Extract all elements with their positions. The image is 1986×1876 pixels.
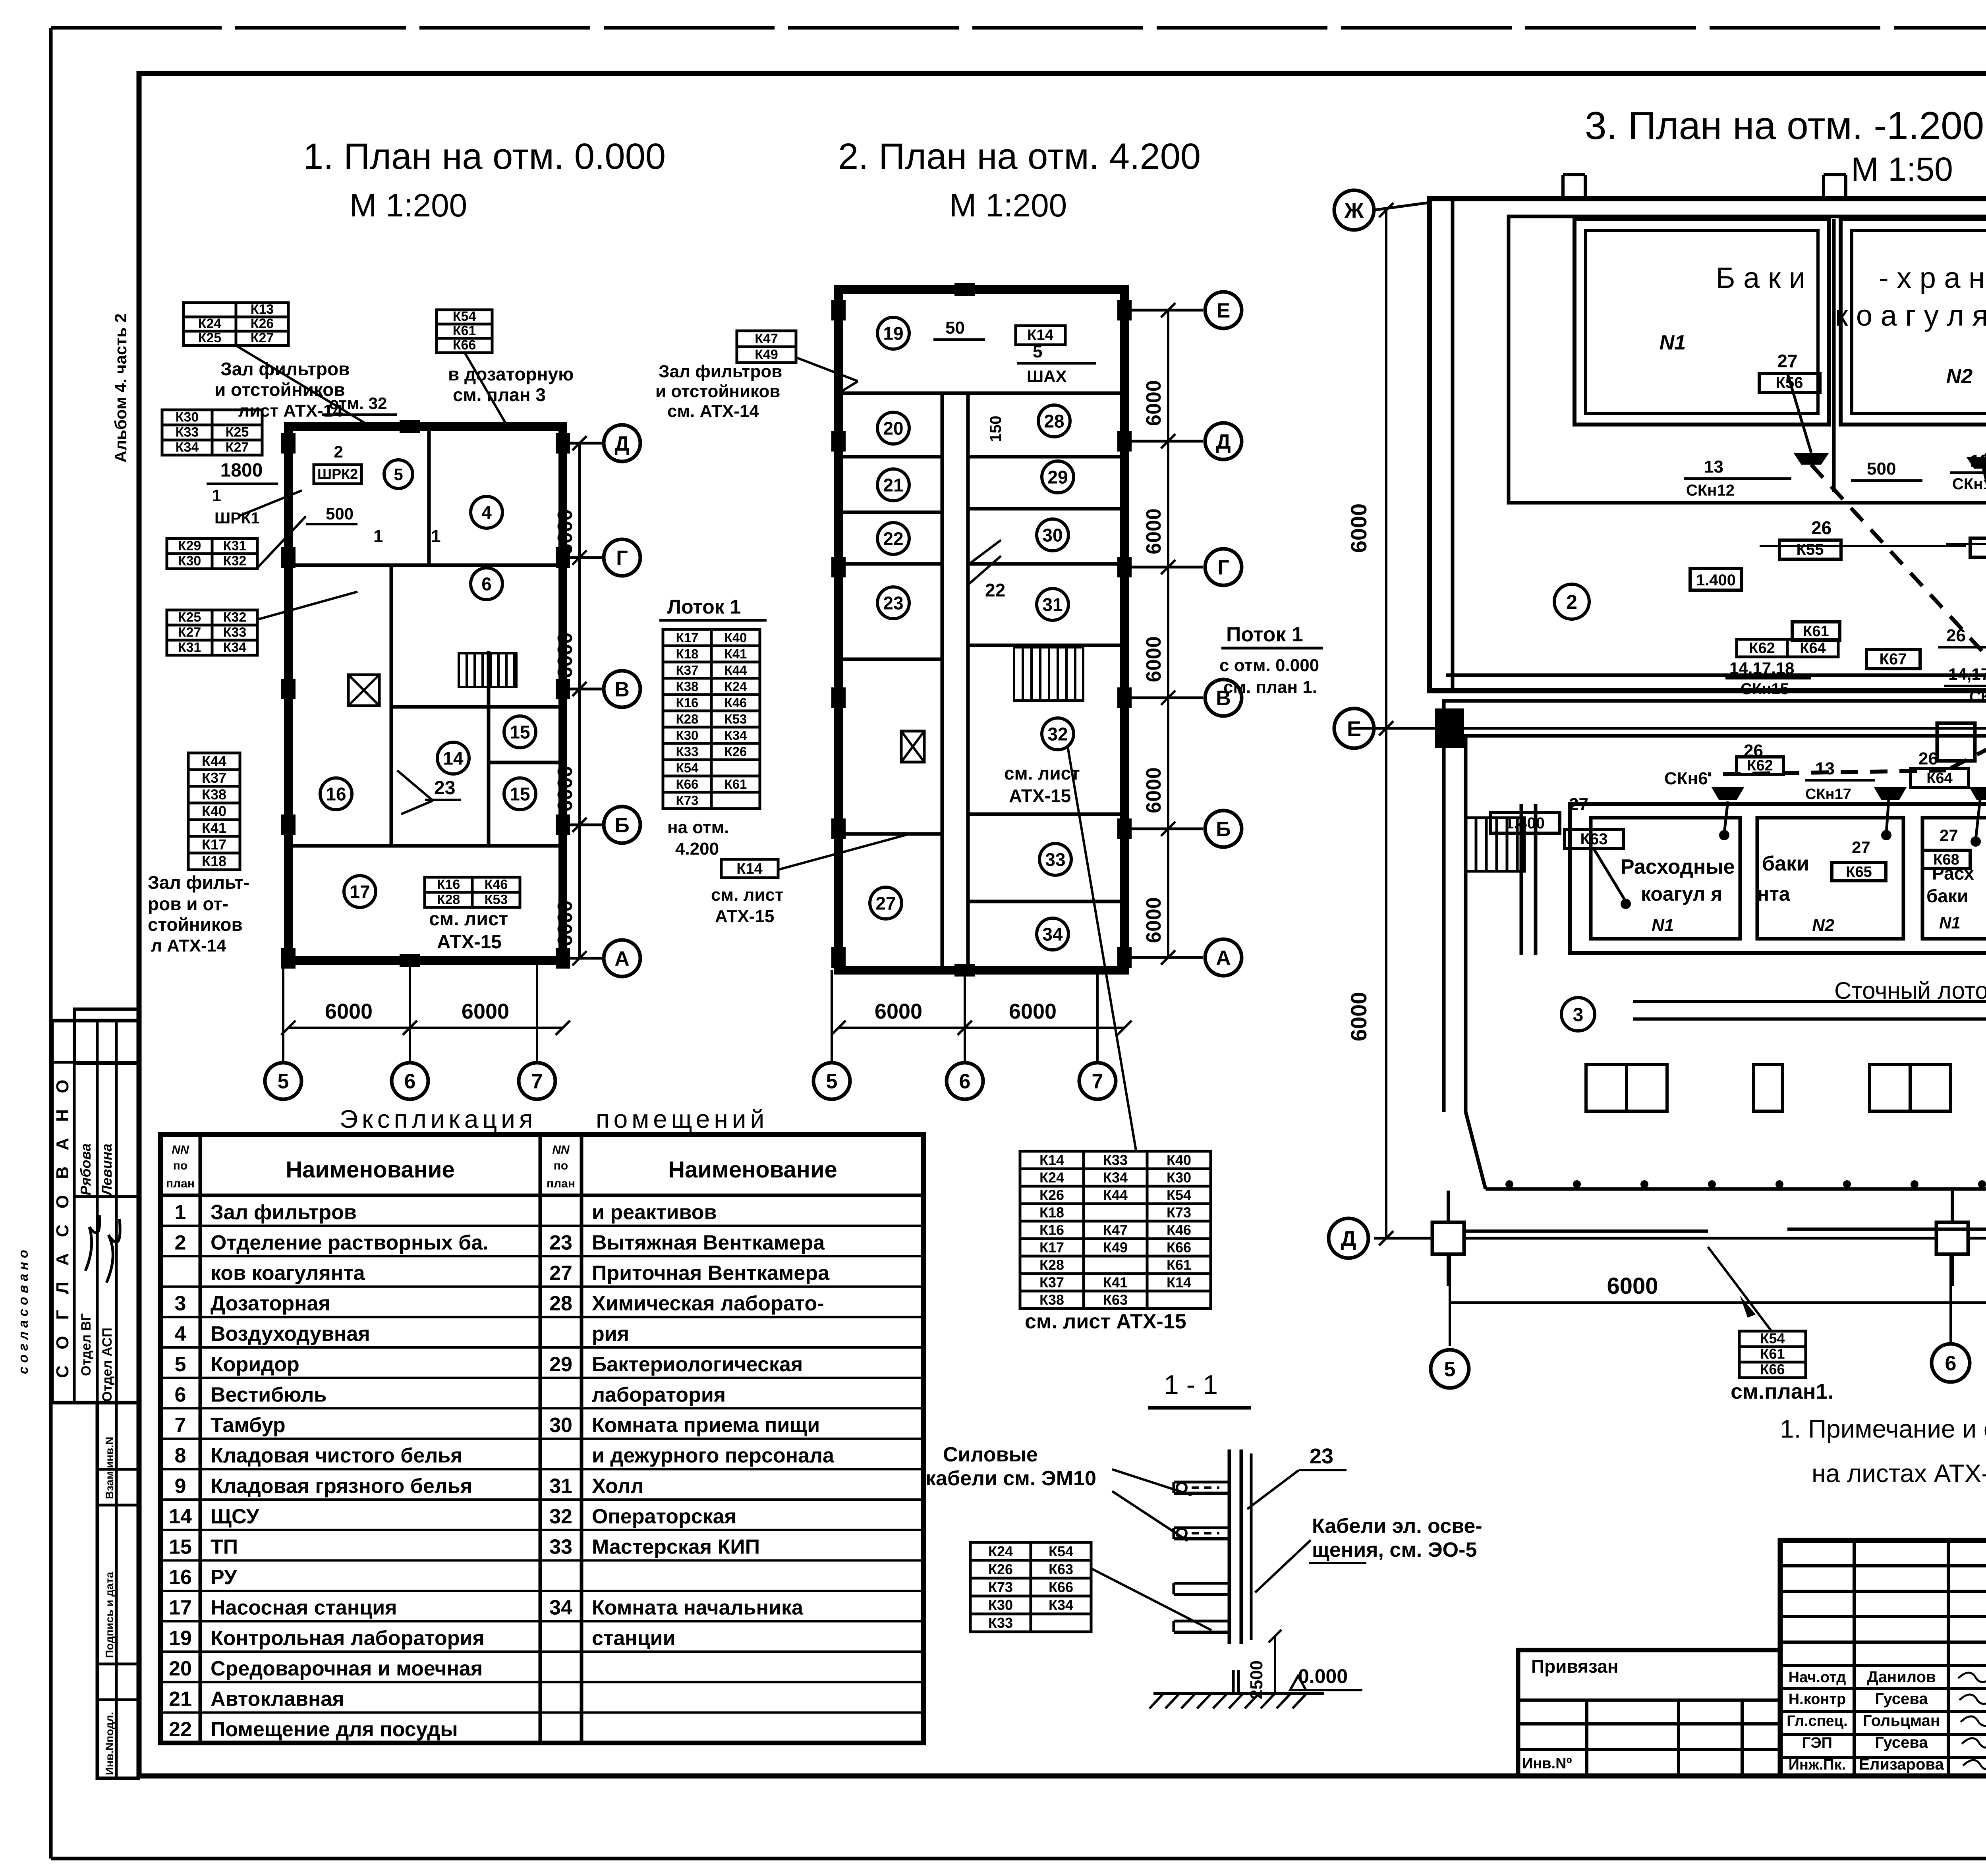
svg-text:Приточная Венткамера: Приточная Венткамера: [592, 1262, 830, 1285]
svg-text:Д: Д: [614, 432, 629, 455]
svg-text:150: 150: [987, 416, 1005, 442]
svg-text:6: 6: [481, 574, 492, 594]
svg-text:К44: К44: [202, 753, 226, 769]
svg-text:15: 15: [510, 722, 530, 743]
svg-text:Левина: Левина: [99, 1144, 115, 1197]
svg-text:СКн17: СКн17: [1805, 786, 1851, 803]
svg-text:1. Примечание и спецификацию: 1. Примечание и спецификацию см.: [1780, 1415, 1986, 1443]
svg-text:А: А: [614, 948, 630, 971]
svg-text:1: 1: [431, 527, 440, 546]
svg-text:К38: К38: [202, 786, 226, 803]
svg-text:станции: станции: [592, 1627, 676, 1650]
svg-text:К27: К27: [251, 330, 274, 345]
svg-text:К61: К61: [1803, 623, 1829, 640]
svg-text:Отдел АСП: Отдел АСП: [100, 1328, 115, 1402]
svg-text:2: 2: [334, 442, 343, 461]
svg-text:ШРК1: ШРК1: [214, 510, 260, 527]
svg-text:22: 22: [985, 580, 1005, 600]
svg-text:нта: нта: [1757, 883, 1791, 905]
svg-text:23: 23: [1310, 1444, 1333, 1468]
svg-text:К41: К41: [1103, 1274, 1128, 1290]
svg-text:6000: 6000: [462, 1000, 509, 1023]
svg-text:Отдел ВГ: Отдел ВГ: [79, 1313, 94, 1376]
svg-text:К49: К49: [755, 347, 778, 362]
svg-text:к о а г у л я н т а: к о а г у л я н т а: [1835, 299, 1986, 332]
svg-text:N1: N1: [1660, 331, 1686, 354]
svg-text:К44: К44: [724, 663, 747, 677]
svg-text:СКн18: СКн18: [1969, 688, 1986, 706]
svg-text:ШАХ: ШАХ: [1027, 367, 1067, 386]
svg-text:Н.контр: Н.контр: [1789, 1691, 1846, 1708]
svg-text:К54: К54: [453, 309, 476, 324]
svg-text:Зал фильт-: Зал фильт-: [148, 872, 249, 893]
svg-text:3: 3: [1573, 1004, 1584, 1025]
svg-text:14: 14: [169, 1505, 192, 1528]
svg-text:К18: К18: [676, 647, 699, 661]
svg-text:А: А: [1216, 947, 1231, 970]
svg-text:6000: 6000: [1142, 636, 1165, 682]
svg-text:Е: Е: [1217, 299, 1231, 322]
svg-text:рия: рия: [592, 1322, 629, 1345]
svg-text:Автоклавная: Автоклавная: [211, 1688, 344, 1711]
svg-text:31: 31: [1042, 594, 1063, 615]
svg-text:9: 9: [175, 1475, 186, 1498]
svg-text:К67: К67: [1880, 650, 1907, 668]
svg-text:33: 33: [549, 1535, 572, 1558]
svg-text:27: 27: [549, 1262, 572, 1285]
svg-text:К26: К26: [724, 744, 747, 759]
svg-text:Тамбур: Тамбур: [211, 1414, 286, 1437]
svg-text:30: 30: [1042, 525, 1063, 546]
svg-text:К37: К37: [676, 663, 699, 677]
svg-text:Б: Б: [1216, 818, 1231, 841]
svg-text:Зал фильтров: Зал фильтров: [659, 362, 782, 381]
svg-text:К61: К61: [453, 323, 476, 338]
svg-text:К66: К66: [453, 338, 476, 353]
svg-text:К40: К40: [202, 803, 226, 819]
svg-text:К14: К14: [1039, 1152, 1064, 1168]
svg-text:2. План на отм. 4.200: 2. План на отм. 4.200: [838, 136, 1201, 177]
svg-text:13: 13: [1704, 457, 1723, 477]
svg-text:28: 28: [549, 1292, 572, 1315]
svg-text:Воздуходувная: Воздуходувная: [211, 1322, 370, 1345]
svg-text:27: 27: [1777, 351, 1797, 371]
svg-text:К28: К28: [437, 892, 460, 907]
svg-text:20: 20: [883, 418, 903, 439]
svg-text:К38: К38: [676, 679, 699, 694]
svg-text:К46: К46: [724, 695, 747, 710]
svg-text:К30: К30: [178, 554, 201, 569]
svg-text:6000: 6000: [1607, 1273, 1658, 1299]
svg-text:К14: К14: [1027, 327, 1053, 344]
svg-text:4.200: 4.200: [675, 839, 719, 859]
svg-text:ШРК2: ШРК2: [317, 466, 358, 482]
svg-text:23: 23: [549, 1231, 572, 1254]
svg-text:щения, см. ЭО-5: щения, см. ЭО-5: [1312, 1538, 1477, 1561]
svg-text:см. лист АТХ-15: см. лист АТХ-15: [1025, 1310, 1186, 1333]
svg-text:см. лист: см. лист: [429, 909, 508, 930]
svg-text:Гольцман: Гольцман: [1863, 1712, 1940, 1729]
svg-text:с о г л а с о в а н о: с о г л а с о в а н о: [16, 1250, 31, 1374]
svg-text:3: 3: [175, 1292, 186, 1315]
svg-text:К65: К65: [1846, 864, 1872, 880]
svg-text:5: 5: [1033, 342, 1042, 361]
svg-text:М 1:200: М 1:200: [949, 187, 1067, 224]
svg-text:N2: N2: [1946, 365, 1973, 388]
svg-text:К38: К38: [1039, 1291, 1064, 1308]
svg-text:1. План на отм. 0.000: 1. План на отм. 0.000: [303, 136, 666, 177]
svg-text:Ж: Ж: [1344, 199, 1364, 222]
svg-text:6000: 6000: [1142, 767, 1165, 813]
svg-text:30: 30: [549, 1414, 572, 1437]
svg-text:Помещение для посуды: Помещение для посуды: [211, 1718, 458, 1741]
svg-text:К33: К33: [176, 425, 199, 440]
svg-text:Привязан: Привязан: [1531, 1656, 1619, 1677]
svg-text:К62: К62: [1747, 757, 1773, 774]
svg-text:19: 19: [169, 1627, 192, 1650]
svg-text:М 1:50: М 1:50: [1851, 151, 1953, 188]
svg-text:17: 17: [169, 1596, 192, 1619]
svg-text:лаборатория: лаборатория: [592, 1383, 726, 1406]
svg-text:К53: К53: [724, 712, 747, 726]
svg-text:К61: К61: [1760, 1345, 1785, 1362]
svg-text:К32: К32: [223, 554, 247, 569]
svg-text:14: 14: [443, 748, 464, 769]
svg-text:Гусева: Гусева: [1875, 1690, 1928, 1708]
svg-text:баки: баки: [1762, 852, 1809, 875]
svg-text:Взам.инв.N: Взам.инв.N: [103, 1437, 116, 1499]
svg-text:7: 7: [175, 1414, 186, 1437]
svg-text:22: 22: [883, 529, 903, 549]
svg-text:по: по: [173, 1159, 187, 1172]
svg-text:РУ: РУ: [211, 1566, 237, 1589]
svg-text:кабели см. ЭМ10: кабели см. ЭМ10: [925, 1467, 1096, 1490]
svg-text:Сточный лоток: Сточный лоток: [1834, 977, 1986, 1004]
svg-text:К26: К26: [988, 1561, 1013, 1577]
svg-text:Б: Б: [614, 814, 629, 837]
svg-text:К34: К34: [1103, 1169, 1128, 1185]
svg-text:К41: К41: [202, 820, 226, 836]
svg-text:см. лист: см. лист: [711, 885, 784, 905]
svg-text:К16: К16: [1039, 1222, 1064, 1238]
svg-text:Гл.спец.: Гл.спец.: [1787, 1713, 1847, 1729]
svg-text:К34: К34: [724, 728, 747, 743]
svg-text:план: план: [547, 1177, 575, 1190]
svg-text:Средоварочная и моечная: Средоварочная и моечная: [211, 1657, 483, 1680]
svg-text:К24: К24: [1039, 1169, 1064, 1185]
svg-text:на отм.: на отм.: [667, 818, 729, 837]
svg-text:Отделение растворных ба.: Отделение растворных ба.: [211, 1231, 489, 1254]
svg-text:32: 32: [1047, 724, 1068, 745]
svg-text:см.план1.: см.план1.: [1731, 1380, 1834, 1403]
svg-text:Подпись и дата: Подпись и дата: [103, 1572, 116, 1658]
svg-text:помещений: помещений: [596, 1105, 768, 1133]
svg-text:Контрольная лаборатория: Контрольная лаборатория: [211, 1627, 485, 1650]
svg-text:К37: К37: [202, 770, 226, 786]
svg-text:6: 6: [959, 1070, 971, 1093]
svg-text:6000: 6000: [1142, 897, 1165, 943]
svg-text:К26: К26: [1039, 1187, 1064, 1203]
svg-text:15: 15: [169, 1535, 192, 1558]
svg-text:К14: К14: [1167, 1274, 1191, 1290]
svg-text:К44: К44: [1103, 1187, 1128, 1203]
svg-text:6000: 6000: [554, 766, 577, 812]
svg-text:3. План на отм. -1.200, 0.000: 3. План на отм. -1.200, 0.000: [1585, 104, 1986, 147]
svg-text:NN: NN: [172, 1143, 189, 1156]
svg-text:в дозаторную: в дозаторную: [448, 364, 574, 384]
svg-text:15: 15: [510, 784, 530, 805]
svg-text:К34: К34: [223, 640, 247, 655]
svg-text:отм. 32: отм. 32: [329, 394, 387, 413]
svg-text:7: 7: [1092, 1070, 1103, 1093]
svg-text:13: 13: [1815, 759, 1835, 778]
svg-text:21: 21: [169, 1688, 192, 1711]
svg-text:- х р а н и л и щ а: - х р а н и л и щ а: [1879, 261, 1986, 294]
svg-text:Г: Г: [616, 547, 628, 570]
svg-text:СКн13: СКн13: [1952, 475, 1986, 493]
svg-text:500: 500: [1867, 459, 1896, 479]
svg-text:14,17,18: 14,17,18: [1729, 659, 1795, 677]
svg-text:К47: К47: [755, 331, 778, 346]
svg-text:см. лист: см. лист: [1004, 763, 1080, 784]
svg-text:N2: N2: [1812, 916, 1835, 935]
svg-text:К25: К25: [198, 330, 222, 345]
svg-text:К13: К13: [251, 302, 274, 317]
svg-text:1: 1: [373, 527, 383, 546]
svg-text:26: 26: [1918, 749, 1938, 768]
svg-text:К61: К61: [724, 777, 747, 791]
svg-text:20: 20: [169, 1657, 192, 1680]
svg-text:К27: К27: [226, 440, 249, 455]
svg-text:К66: К66: [676, 777, 699, 791]
svg-text:16: 16: [169, 1566, 192, 1589]
svg-text:К66: К66: [1167, 1239, 1191, 1255]
svg-text:1.400: 1.400: [1696, 571, 1736, 589]
svg-text:на листах АТХ-15, АТХ-17.: на листах АТХ-15, АТХ-17.: [1812, 1459, 1986, 1488]
svg-text:К41: К41: [724, 647, 747, 661]
svg-text:6000: 6000: [875, 1000, 922, 1023]
svg-text:баки: баки: [1926, 886, 1968, 906]
svg-text:В: В: [614, 678, 630, 701]
svg-text:17: 17: [350, 882, 370, 902]
svg-text:21: 21: [883, 475, 903, 496]
svg-text:стойников: стойников: [148, 914, 243, 935]
svg-text:26: 26: [1811, 517, 1831, 538]
svg-text:К27: К27: [178, 625, 201, 640]
svg-text:и реактивов: и реактивов: [592, 1201, 717, 1224]
svg-text:1: 1: [175, 1201, 186, 1224]
svg-text:Зал фильтров: Зал фильтров: [211, 1201, 357, 1224]
svg-text:см. АТХ-14: см. АТХ-14: [667, 401, 759, 421]
svg-text:К34: К34: [176, 440, 199, 455]
svg-text:6000: 6000: [1346, 504, 1371, 553]
svg-text:К17: К17: [676, 630, 699, 645]
svg-text:К30: К30: [988, 1597, 1013, 1613]
svg-text:Расходные: Расходные: [1621, 855, 1735, 878]
svg-text:6000: 6000: [1346, 992, 1371, 1042]
svg-text:34: 34: [1042, 924, 1063, 945]
svg-text:23: 23: [883, 593, 903, 614]
svg-text:и дежурного персонала: и дежурного персонала: [592, 1444, 835, 1467]
svg-text:К33: К33: [676, 744, 699, 759]
svg-text:К17: К17: [202, 836, 226, 853]
svg-text:Альбом 4. часть 2: Альбом 4. часть 2: [111, 313, 130, 463]
svg-text:6000: 6000: [1009, 1000, 1057, 1023]
svg-text:К30: К30: [676, 728, 699, 743]
svg-text:7: 7: [531, 1070, 543, 1093]
svg-text:К24: К24: [724, 679, 747, 694]
svg-text:27: 27: [1852, 838, 1870, 857]
svg-text:4: 4: [481, 502, 492, 523]
svg-text:ГЭП: ГЭП: [1802, 1735, 1832, 1751]
svg-text:29: 29: [1047, 467, 1068, 488]
svg-text:N1: N1: [1939, 913, 1961, 932]
svg-text:К73: К73: [988, 1579, 1013, 1595]
svg-text:К16: К16: [437, 877, 460, 892]
svg-text:С О Г Л А С О В А Н О: С О Г Л А С О В А Н О: [53, 1074, 72, 1378]
svg-text:К31: К31: [223, 538, 247, 554]
svg-text:Кладовая чистого белья: Кладовая чистого белья: [211, 1444, 463, 1467]
svg-text:К46: К46: [485, 877, 508, 892]
svg-text:К18: К18: [1039, 1204, 1064, 1220]
svg-text:К68: К68: [1933, 851, 1959, 868]
svg-text:л АТХ-14: л АТХ-14: [151, 936, 226, 955]
svg-text:К64: К64: [1800, 640, 1826, 656]
svg-text:К37: К37: [1039, 1274, 1064, 1290]
svg-text:по: по: [554, 1159, 568, 1172]
svg-text:27: 27: [875, 893, 896, 914]
svg-text:Инв.Nподл.: Инв.Nподл.: [103, 1712, 116, 1775]
svg-text:К73: К73: [1167, 1204, 1191, 1220]
svg-text:К34: К34: [1049, 1597, 1073, 1613]
svg-text:23: 23: [434, 778, 455, 799]
svg-text:см. план 3: см. план 3: [453, 384, 546, 405]
svg-text:ров и от-: ров и от-: [148, 894, 228, 914]
svg-text:К33: К33: [1103, 1152, 1128, 1168]
svg-text:К54: К54: [1049, 1543, 1073, 1559]
svg-text:27: 27: [1569, 795, 1588, 814]
svg-text:34: 34: [549, 1596, 572, 1619]
svg-text:К18: К18: [202, 853, 226, 869]
svg-text:СКн6: СКн6: [1664, 769, 1708, 788]
svg-text:с отм. 0.000: с отм. 0.000: [1219, 656, 1319, 675]
svg-text:К28: К28: [676, 712, 699, 726]
svg-text:1800: 1800: [220, 460, 263, 481]
svg-text:К54: К54: [676, 760, 699, 775]
svg-text:К66: К66: [1049, 1579, 1073, 1595]
svg-text:К63: К63: [1103, 1291, 1128, 1308]
svg-text:К24: К24: [198, 316, 222, 331]
svg-text:6: 6: [175, 1383, 186, 1406]
svg-text:Данилов: Данилов: [1867, 1668, 1936, 1686]
svg-text:Бактериологическая: Бактериологическая: [592, 1353, 803, 1376]
svg-text:2: 2: [175, 1231, 186, 1254]
svg-text:33: 33: [1045, 849, 1065, 870]
svg-text:Коридор: Коридор: [211, 1353, 299, 1376]
svg-text:22: 22: [169, 1718, 192, 1741]
svg-text:и отстойников: и отстойников: [214, 379, 345, 400]
svg-text:32: 32: [549, 1505, 572, 1528]
svg-text:Комната приема пищи: Комната приема пищи: [592, 1414, 820, 1437]
svg-text:Холл: Холл: [592, 1475, 644, 1498]
svg-text:6000: 6000: [1142, 508, 1165, 554]
svg-text:26: 26: [1946, 626, 1966, 645]
svg-text:4: 4: [175, 1322, 186, 1345]
svg-text:6000: 6000: [554, 632, 577, 678]
svg-text:СКн15: СКн15: [1741, 680, 1789, 698]
svg-text:5: 5: [826, 1070, 838, 1093]
svg-text:6000: 6000: [1142, 380, 1165, 426]
svg-text:Насосная станция: Насосная станция: [211, 1596, 397, 1619]
svg-text:Дозаторная: Дозаторная: [211, 1292, 330, 1315]
svg-text:К30: К30: [1167, 1169, 1191, 1185]
svg-text:К33: К33: [988, 1615, 1013, 1631]
svg-text:Экспликация: Экспликация: [340, 1105, 537, 1133]
svg-text:5: 5: [394, 465, 403, 484]
svg-text:и отстойников: и отстойников: [655, 382, 780, 401]
svg-text:К29: К29: [178, 538, 201, 554]
svg-text:Г: Г: [1217, 556, 1229, 579]
svg-text:ТП: ТП: [211, 1535, 238, 1558]
svg-text:Наименование: Наименование: [286, 1157, 455, 1183]
svg-text:К61: К61: [1167, 1256, 1191, 1273]
svg-text:Елизарова: Елизарова: [1859, 1756, 1944, 1773]
svg-text:19: 19: [883, 323, 903, 344]
svg-text:8: 8: [175, 1444, 186, 1467]
svg-text:Поток 1: Поток 1: [1226, 623, 1303, 646]
svg-text:Д: Д: [1216, 430, 1231, 454]
svg-text:К25: К25: [178, 610, 201, 625]
svg-text:500: 500: [326, 504, 354, 523]
svg-text:29: 29: [549, 1353, 572, 1376]
svg-text:К63: К63: [1049, 1561, 1073, 1577]
svg-text:К40: К40: [1167, 1152, 1191, 1168]
svg-text:1: 1: [212, 486, 221, 505]
svg-text:Гусева: Гусева: [1875, 1734, 1928, 1751]
svg-text:Химическая лаборато-: Химическая лаборато-: [592, 1292, 824, 1315]
svg-text:К28: К28: [1039, 1256, 1064, 1273]
svg-text:31: 31: [549, 1475, 572, 1498]
svg-text:К30: К30: [176, 410, 199, 425]
svg-text:К63: К63: [1580, 830, 1608, 848]
svg-text:5: 5: [1444, 1358, 1456, 1381]
svg-text:К25: К25: [226, 425, 249, 440]
svg-text:К64: К64: [1926, 770, 1952, 787]
svg-text:6000: 6000: [325, 1000, 373, 1023]
svg-text:NN: NN: [552, 1143, 570, 1156]
svg-text:Лоток 1: Лоток 1: [667, 596, 741, 618]
svg-text:6: 6: [404, 1070, 416, 1093]
svg-text:К26: К26: [251, 316, 274, 331]
svg-text:М 1:200: М 1:200: [350, 187, 467, 224]
svg-text:К16: К16: [676, 695, 699, 710]
svg-text:К32: К32: [223, 610, 247, 625]
svg-text:Инв.Nº: Инв.Nº: [1522, 1755, 1572, 1772]
svg-text:К14: К14: [736, 861, 762, 877]
svg-text:5: 5: [278, 1070, 289, 1093]
svg-text:К62: К62: [1749, 640, 1775, 656]
svg-text:К53: К53: [485, 892, 508, 907]
svg-text:ЩСУ: ЩСУ: [211, 1505, 259, 1528]
svg-text:К54: К54: [1760, 1330, 1785, 1346]
svg-text:коагул я: коагул я: [1641, 883, 1723, 905]
svg-text:К55: К55: [1797, 541, 1824, 558]
svg-text:Наименование: Наименование: [668, 1157, 837, 1183]
svg-text:Кладовая грязного белья: Кладовая грязного белья: [211, 1475, 472, 1498]
svg-text:Операторская: Операторская: [592, 1505, 736, 1528]
svg-text:К47: К47: [1103, 1222, 1128, 1238]
svg-text:Рябова: Рябова: [77, 1143, 94, 1195]
